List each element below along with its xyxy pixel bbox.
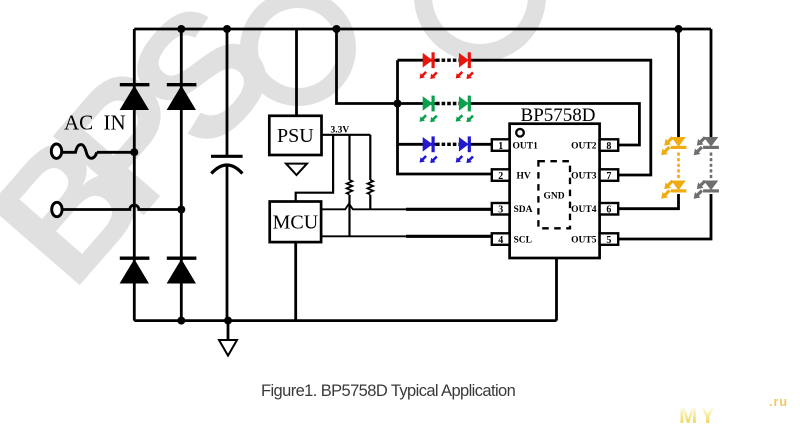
svg-text:4: 4	[498, 235, 503, 246]
svg-text:3.3V: 3.3V	[331, 126, 350, 136]
svg-text:OUT5: OUT5	[571, 236, 597, 246]
svg-text:OUT4: OUT4	[571, 205, 597, 215]
svg-text:6: 6	[606, 205, 611, 216]
svg-text:1: 1	[498, 141, 503, 152]
svg-text:SCL: SCL	[514, 236, 532, 246]
svg-text:OUT3: OUT3	[571, 172, 597, 182]
svg-text:8: 8	[606, 141, 611, 152]
svg-text:7: 7	[606, 171, 611, 182]
svg-text:MCU: MCU	[273, 212, 319, 234]
svg-text:BP5758D: BP5758D	[521, 105, 596, 126]
svg-text:2: 2	[498, 171, 503, 182]
svg-text:PSU: PSU	[277, 125, 314, 147]
svg-text:5: 5	[606, 235, 611, 246]
svg-text:HV: HV	[517, 172, 531, 182]
svg-text:GND: GND	[543, 192, 564, 202]
svg-text:OUT1: OUT1	[513, 142, 539, 152]
svg-text:3: 3	[498, 205, 503, 216]
svg-text:OUT2: OUT2	[571, 142, 597, 152]
svg-text:SDA: SDA	[514, 205, 533, 215]
